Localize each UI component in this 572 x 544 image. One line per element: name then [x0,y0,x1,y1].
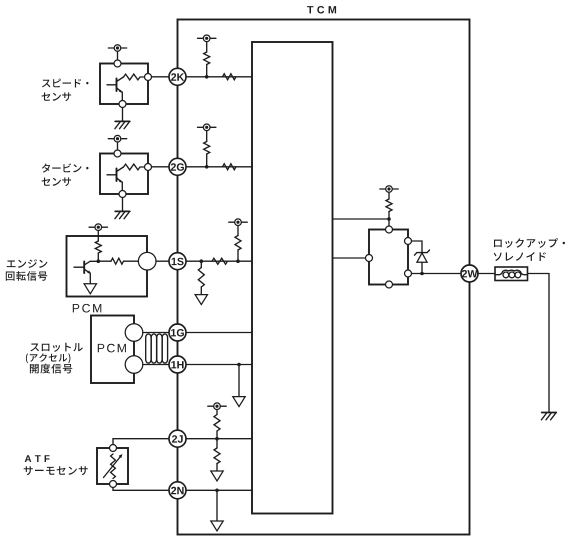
terminal (top) of driver [386,226,393,233]
terminal (top) of ATF sensor [110,445,117,452]
terminal (top) of speed sensor (スピード・センサ) [114,60,121,67]
terminal (bottom) of turbine sensor (タービン・センサ) [119,191,126,198]
power supply symbol (turbine sensor supply) [108,135,126,142]
wire 2J to controller [186,438,252,440]
label タービン・ [42,163,89,172]
label ATF [25,455,50,462]
label センサ [42,92,72,101]
transistor Q3 (PCM output) [74,261,91,284]
terminal (top) of turbine sensor (タービン・センサ) [114,150,121,157]
node 1H junction [237,363,241,367]
wire 2G to controller [186,166,252,168]
wire controller to driver input [333,257,366,259]
wire 1S to controller [186,260,252,262]
wire 2N to controller [186,489,252,491]
signal ground triangle (1S pull-down) [195,295,207,305]
ground (solenoid ground) [541,413,556,420]
solenoid coil winding [496,270,528,278]
resistor R6 (PCM series) [111,258,124,264]
TCM connector terminal 1H (throttle signal -) [169,356,186,373]
wire R7 to ground triangle [200,287,202,295]
wire turbine sensor to 2G [152,166,170,168]
terminal (right) of turbine sensor (タービン・センサ) [145,164,152,171]
wire R9 to 1S node [237,250,239,261]
power supply symbol (2J pull-up supply) [208,403,226,410]
TCM label [307,6,336,14]
resistor R5 (PCM collector) [95,241,101,253]
zener diode D1 [415,250,430,274]
signal ground triangle (2J divider) [211,471,223,481]
node PCM collector [97,259,101,263]
resistor R8 (1S series) [212,258,228,264]
wire 1G to controller [186,332,252,334]
thermistor RT1 (variable resistor) [111,454,116,479]
TCM connector terminal 2N (ATF sensor return) [169,482,186,499]
node 1S junction B [236,259,240,263]
wire R12 to driver box [388,212,390,227]
wire turbine sensor to ground [122,198,124,212]
wire R11 to ground triangle [216,464,218,472]
terminal (bottom) of speed sensor (スピード・センサ) [119,101,126,108]
ground (speed sensor ground) [115,121,130,128]
TCM internal controller box U1 [252,42,333,514]
node 2N junction [215,489,219,493]
wire supply to R12 [388,192,390,199]
resistor R1 (2K pull-up) [204,52,210,65]
wire speed sensor to 2K [152,76,170,78]
TCM connector terminal 2W (lock-up solenoid output) [461,265,478,282]
terminal (bottom) of driver [386,281,393,288]
power supply symbol (1S pull-up supply) [229,219,247,226]
TCM connector terminal 2G (turbine sensor input) [169,158,186,175]
resistor inside turbine sensor (タービン・センサ) [124,164,145,170]
wire upper output to 1G [143,332,170,334]
wire collector to node [90,260,98,262]
terminal (bottom) of ATF sensor [110,481,117,488]
speed sensor (スピード・センサ) box [100,64,148,105]
label エンジン [7,259,48,268]
wire supply to R10 [216,409,218,414]
terminal (right) of speed sensor (スピード・センサ) [145,74,152,81]
label センサ (turbine) [42,177,72,186]
ground (turbine sensor ground) [115,211,130,218]
resistor R9 (1S pull-up) [235,236,241,251]
PCM throttle output terminal (upper) [125,324,143,342]
TCM outer box [178,20,470,535]
wire R10 to 2J node [216,431,218,439]
TCM connector terminal 2J (ATF sensor input) [169,430,186,447]
power supply symbol (speed sensor supply) [108,45,126,52]
TCM connector terminal 1G (throttle signal +) [169,324,186,341]
wire turbine sensor supply to box [117,142,119,150]
terminal (right upper) of driver [405,238,412,245]
wire driver lower output to 2W [412,273,462,275]
wire lower output to 1H [143,364,170,366]
power supply symbol (2G pull-up supply) [198,124,216,131]
resistor R3 (2G pull-up) [204,142,210,155]
power supply symbol (driver supply) [380,186,398,193]
wire PCM output to 1S [156,260,169,262]
label ロックアップ・ [494,238,565,248]
wire 1H node to ground triangle [238,365,240,397]
transistor Q inside turbine sensor (タービン・センサ) [107,167,124,191]
turbine sensor (タービン・センサ) box [100,154,148,195]
wire R5 to collector node [97,253,99,261]
wire 1S node to R7 [200,261,202,267]
node zener junction [420,272,424,276]
wire node to R6 [98,260,111,262]
wire speed sensor supply to box [117,51,119,60]
ATF thermosensor box [97,448,128,484]
PCM throttle box [91,316,134,384]
wire supply to R1 [206,41,208,52]
node 2G junction [205,165,209,169]
node 2K junction [205,75,209,79]
wire driver upper output to zener [412,241,423,253]
label PCM (engine speed) [73,304,102,313]
wire controller to driver supply node [333,218,390,220]
wire 2K to controller [186,76,252,78]
label 回転信号 [6,271,47,281]
node driver supply junction [387,217,391,221]
wire supply into PCM box [97,231,99,242]
label スロットル [30,343,82,352]
wire 2N node to ground triangle [216,490,218,521]
wire 2J node to R11 [216,439,218,448]
resistor R7 (1S pull-down) [198,268,204,288]
node 1S junction A [200,259,204,263]
power supply symbol (2K pull-up supply) [198,35,216,42]
wire supply to R9 [237,226,239,236]
wire ATF top to 2J [113,439,169,445]
PCM engine-speed box [67,236,148,297]
resistor R2 (2K series) [223,74,237,80]
terminal (left) of driver [366,255,373,262]
lock-up solenoid box [495,267,528,281]
TCM connector terminal 2K (speed sensor input) [169,68,186,85]
resistor R10 (2J pull-up) [214,415,220,432]
resistor R11 (2J pull-down) [214,448,220,464]
PCM output terminal circle [138,252,156,270]
label 開度信号 [30,364,72,374]
signal ground triangle (PCM emitter) [84,284,96,294]
signal ground triangle (2N reference) [211,521,223,531]
inductor L1 (throttle signal coupling coil) [146,334,168,363]
wire R6 to output circle [124,260,139,262]
wire solenoid to ground [528,274,550,413]
label サーモセンサ [24,466,88,475]
wire speed sensor to ground [122,108,124,122]
wire ATF bottom to 2N [113,488,169,491]
label PCM (inside throttle box) [98,344,126,353]
wire R1 to 2K node [206,65,208,77]
node 2J junction [215,437,219,441]
output driver box [369,230,408,285]
resistor R4 (2G series) [223,164,237,170]
resistor R12 (driver pull-up) [386,199,392,212]
TCM connector terminal 1S (engine speed input) [169,253,186,270]
power supply symbol (PCM driver supply) [89,224,107,231]
terminal (right lower) of driver [405,270,412,277]
signal ground triangle (1H reference) [233,397,245,407]
thermistor arrow [104,454,123,478]
wire supply to R3 [206,130,208,141]
wire 2W to solenoid [478,273,495,275]
label スピード・ [42,79,89,88]
wire 1H to controller [186,364,252,366]
wire R3 to 2G node [206,154,208,167]
transistor Q inside speed sensor (スピード・センサ) [107,77,124,101]
resistor inside speed sensor (スピード・センサ) [124,74,145,80]
label ソレノイド [494,252,546,261]
PCM throttle output terminal (lower) [125,356,143,374]
label (アクセル) [26,353,71,363]
